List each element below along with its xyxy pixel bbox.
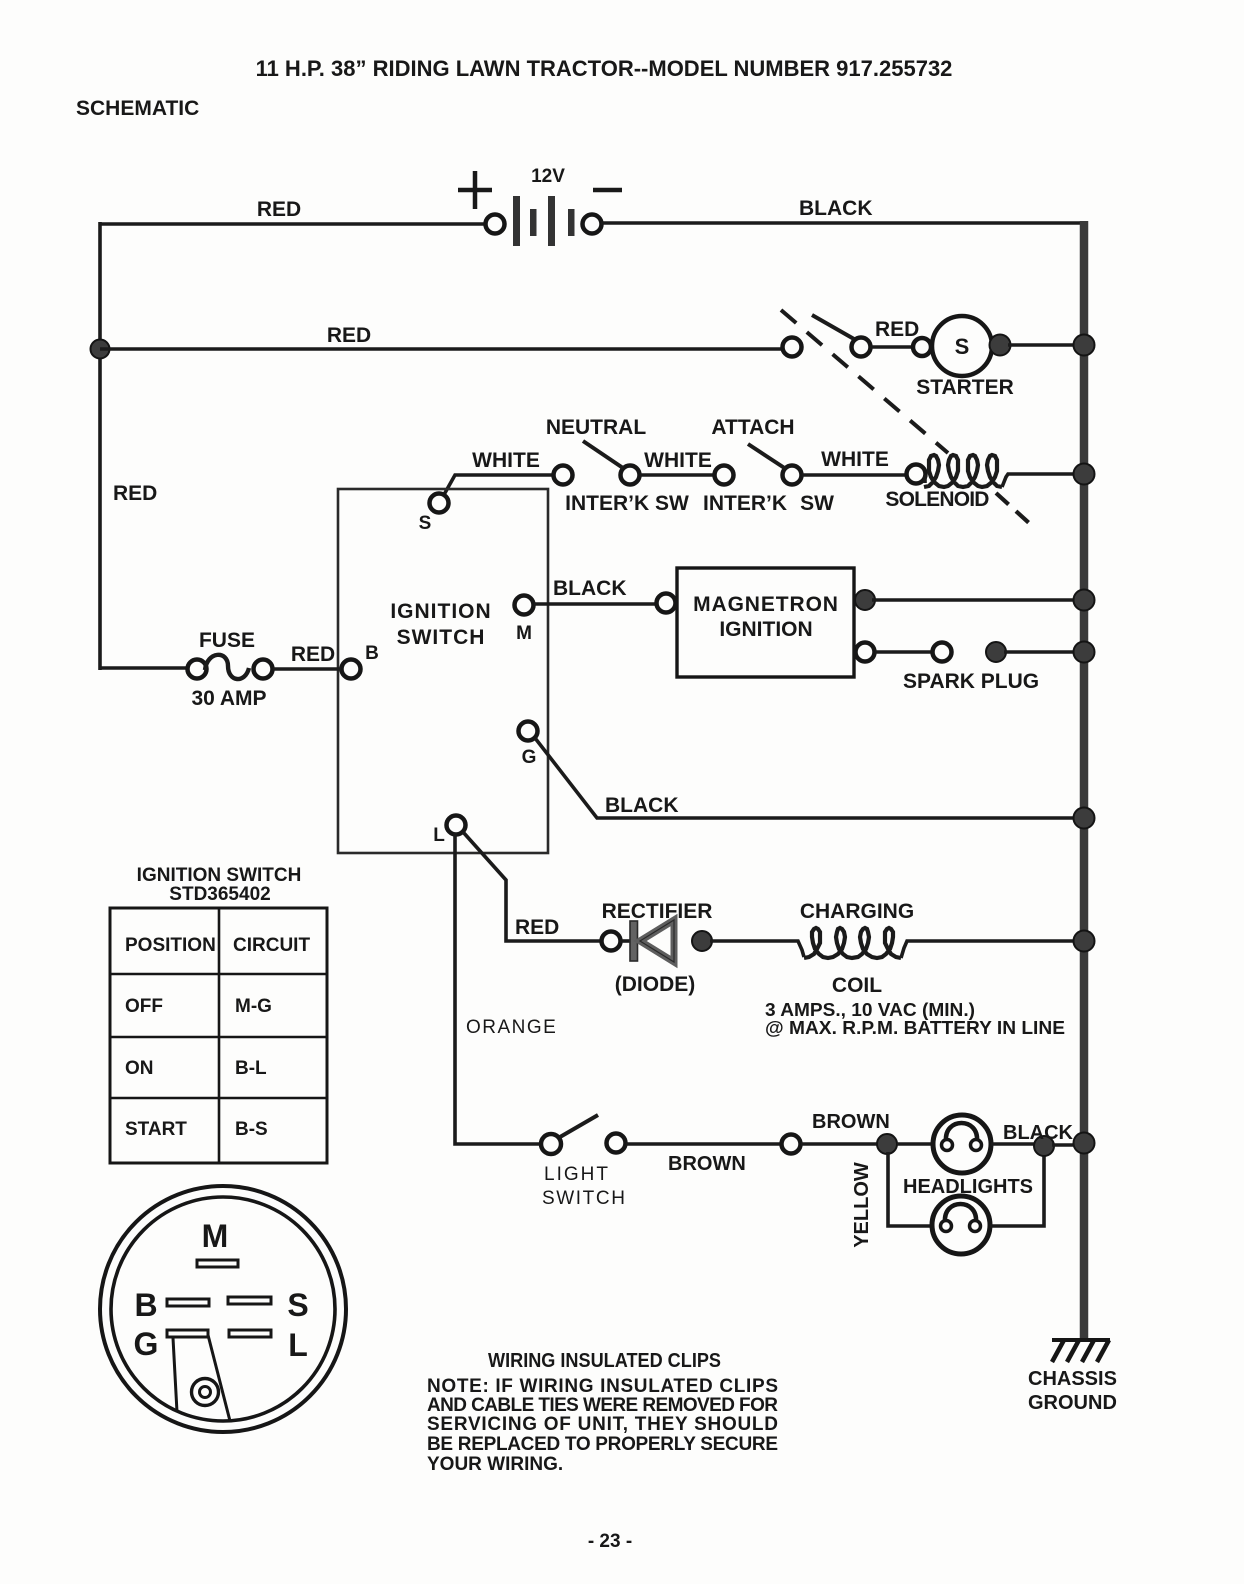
ignition switch connector view [100,1186,346,1432]
node: headlight output junction [1034,1136,1054,1156]
svg-text:G: G [134,1326,159,1362]
svg-text:NOTE: IF WIRING INSULATED CLIP: NOTE: IF WIRING INSULATED CLIPS [427,1376,778,1397]
chassis ground symbol [1052,1340,1110,1362]
svg-text:SERVICING OF UNIT, THEY SHOULD: SERVICING OF UNIT, THEY SHOULD [427,1414,778,1435]
svg-text:SPARK PLUG: SPARK PLUG [903,670,1039,693]
headlight feed terminal [782,1135,801,1154]
svg-text:B: B [134,1287,157,1323]
spark plug gap [856,642,1085,662]
label SPARK PLUG [903,670,1039,693]
label ATTACH [711,416,794,439]
starter switch contacts [783,315,871,357]
note heading WIRING INSULATED CLIPS [488,1350,721,1372]
headlight 2 [932,1152,1044,1254]
svg-text:SWITCH: SWITCH [397,626,486,649]
svg-text:IGNITION: IGNITION [390,600,491,623]
svg-text:INTER’K SW: INTER’K SW [565,492,689,515]
battery B1 12V [458,171,622,246]
svg-text:YELLOW: YELLOW [851,1162,873,1248]
label WHITE (right) [821,448,889,471]
label NEUTRAL [546,416,646,439]
svg-text:COIL: COIL [832,974,882,997]
svg-text:IGNITION: IGNITION [719,618,812,641]
label FUSE [199,629,255,652]
label STARTER [916,376,1014,399]
label BROWN (lower) [668,1153,746,1175]
svg-text:- 23 -: - 23 - [588,1531,632,1552]
label 30 AMP [191,687,266,710]
svg-text:YOUR WIRING.: YOUR WIRING. [427,1454,563,1475]
svg-text:LIGHT: LIGHT [544,1164,610,1185]
label BLACK (top) [799,197,873,220]
svg-text:(DIODE): (DIODE) [615,973,696,996]
ignition switch box [338,489,548,853]
svg-text:30 AMP: 30 AMP [191,687,266,710]
svg-text:GROUND: GROUND [1028,1392,1117,1414]
label INTER'K SW (attach) [703,492,834,515]
svg-text:SCHEMATIC: SCHEMATIC [76,97,199,120]
svg-text:RED: RED [515,916,559,939]
svg-text:CIRCUIT: CIRCUIT [233,935,310,956]
label RED (rectifier wire) [515,916,559,939]
label YELLOW (rotated) [851,1162,873,1248]
node: bus junction (solenoid) [1074,464,1095,485]
wire: to yellow junction [801,1142,878,1146]
connector pin L [229,1327,308,1363]
starter output node [990,335,1011,356]
wire: fuse to B terminal [273,667,341,671]
label COIL [832,974,882,997]
svg-text:RED: RED [291,643,335,666]
svg-text:STARTER: STARTER [916,376,1014,399]
light switch [541,1115,626,1154]
label IGNITION SWITCH (table title) [137,865,302,905]
svg-text:B-L: B-L [235,1058,267,1079]
svg-text:START: START [125,1119,187,1140]
neutral interlock switch [554,441,640,485]
svg-text:BLACK: BLACK [799,197,873,220]
magnetron output node [855,590,875,610]
page number [588,1531,632,1552]
svg-text:BLACK: BLACK [1003,1122,1074,1144]
node: bus junction (magnetron) [1074,590,1095,611]
wire: L terminal red wire to rectifier [463,832,601,941]
svg-text:@ MAX. R.P.M. BATTERY IN LINE: @ MAX. R.P.M. BATTERY IN LINE [765,1018,1065,1038]
connector key pointer [173,1335,230,1421]
svg-text:CHARGING: CHARGING [800,900,914,923]
magnetron input terminal [657,594,676,613]
node: bus junction (headlights) [1074,1133,1095,1154]
label RED (second row) [327,324,371,347]
starter motor S [932,316,992,376]
ignition switch G terminal [519,722,538,769]
svg-text:CHASSIS: CHASSIS [1028,1368,1117,1390]
svg-text:RED: RED [327,324,371,347]
label BLACK (magnetron wire) [553,577,627,600]
svg-text:M: M [516,623,532,644]
wire: battery positive red wire [100,222,486,226]
svg-text:MAGNETRON: MAGNETRON [693,593,839,616]
label WHITE (left) [472,449,540,472]
svg-text:WHITE: WHITE [821,448,889,471]
solenoid coil [907,455,1085,487]
connector pin M [197,1218,238,1267]
label INTER'K SW (neutral) [565,492,689,515]
attach interlock switch [715,444,802,485]
svg-text:SOLENOID: SOLENOID [885,488,989,511]
svg-text:B: B [365,643,379,664]
wire: between interlock switches [640,473,714,477]
svg-text:SW: SW [800,492,834,515]
label RED (starter) [875,318,919,341]
svg-text:BE REPLACED TO PROPERLY SECURE: BE REPLACED TO PROPERLY SECURE [427,1434,778,1455]
schematic heading [76,97,199,120]
wire: L terminal orange wire [455,833,541,1144]
svg-text:RED: RED [257,198,301,221]
label CHARGING [800,900,914,923]
ignition switch L terminal [433,816,465,847]
charging coil [710,928,1084,958]
node: bus junction (starter) [1074,335,1095,356]
label BLACK (headlights) [1003,1122,1074,1144]
svg-text:ATTACH: ATTACH [711,416,794,439]
svg-text:G: G [522,747,537,768]
label 12V [531,166,565,187]
svg-text:RED: RED [875,318,919,341]
wire: left vertical red bus [98,222,102,670]
ignition switch table [110,908,327,1163]
wire: switch to starter [870,345,914,349]
wire: to bus [1052,1143,1084,1147]
svg-text:11 H.P. 38” RIDING LAWN TRACTO: 11 H.P. 38” RIDING LAWN TRACTOR--MODEL N… [256,56,953,81]
headlight 1 [897,1115,1035,1173]
mechanical linkage dashed line [781,310,1029,523]
wire: battery negative black wire [601,221,1086,225]
wire: M to magnetron [534,602,656,606]
ignition switch B terminal [342,643,379,679]
svg-text:L: L [288,1327,308,1363]
fuse F1 30 amp [188,655,273,679]
title [256,56,953,81]
svg-text:NEUTRAL: NEUTRAL [546,416,646,439]
svg-text:STD365402: STD365402 [169,884,270,905]
svg-text:BROWN: BROWN [668,1153,746,1175]
svg-text:BLACK: BLACK [553,577,627,600]
svg-text:12V: 12V [531,166,565,187]
svg-text:AND CABLE TIES WERE REMOVED FO: AND CABLE TIES WERE REMOVED FOR [427,1395,778,1416]
starter terminal [913,338,931,356]
ignition switch M terminal [515,596,534,645]
label SOLENOID [885,488,989,511]
label IGNITION SWITCH (box) [390,600,491,649]
wire: G terminal black wire [535,738,1084,818]
svg-text:ON: ON [125,1058,154,1079]
svg-text:POSITION: POSITION [125,935,216,956]
label RED (top) [257,198,301,221]
svg-text:M-G: M-G [235,996,272,1017]
svg-text:B-S: B-S [235,1119,268,1140]
node: bus junction (G wire) [1074,808,1095,829]
wire: fuse feed [100,666,188,670]
svg-text:ORANGE: ORANGE [466,1017,557,1038]
label coil ratings [765,1000,1065,1038]
wire: attach interlock to solenoid [802,473,906,477]
label RED (fuse) [291,643,335,666]
svg-text:WIRING INSULATED CLIPS: WIRING INSULATED CLIPS [488,1350,721,1372]
svg-text:M: M [202,1218,229,1254]
svg-text:FUSE: FUSE [199,629,255,652]
label HEADLIGHTS [903,1176,1033,1198]
label LIGHT SWITCH [542,1164,627,1209]
svg-text:S: S [419,513,432,534]
svg-text:BROWN: BROWN [812,1111,890,1133]
svg-text:WHITE: WHITE [644,449,712,472]
note paragraph [427,1376,778,1475]
label RECTIFIER [602,900,713,923]
label (DIODE) [615,973,696,996]
magnetron ignition box [677,568,854,677]
svg-text:INTER’K: INTER’K [703,492,787,515]
svg-text:S: S [955,334,970,359]
svg-text:IGNITION SWITCH: IGNITION SWITCH [137,865,302,886]
wire: starter to ground bus [1008,343,1084,347]
label WHITE (middle) [644,449,712,472]
svg-text:3 AMPS., 10 VAC (MIN.): 3 AMPS., 10 VAC (MIN.) [765,1000,975,1020]
label BLACK (G wire) [605,794,679,817]
label RED (left vertical) [113,482,157,505]
node: bus junction (spark plug) [1074,642,1095,663]
svg-text:RECTIFIER: RECTIFIER [602,900,713,923]
wire: S terminal to neutral interlock [441,475,553,500]
svg-text:OFF: OFF [125,996,163,1017]
ignition switch S terminal [419,494,449,535]
svg-text:SWITCH: SWITCH [542,1188,627,1209]
connector pin G [134,1326,208,1362]
wire: light switch to headlight feed [626,1142,781,1146]
label ORANGE [466,1017,557,1038]
wire: magnetron to bus [872,598,1084,602]
svg-text:BLACK: BLACK [605,794,679,817]
svg-text:RED: RED [113,482,157,505]
svg-text:S: S [287,1287,308,1323]
svg-text:L: L [433,825,445,846]
connector pin B [134,1287,209,1323]
wire: yellow branch [888,1152,933,1226]
node: junction on left red wire [91,340,110,359]
chassis ground bus (right vertical) [1080,221,1089,1340]
label BROWN (upper) [812,1111,890,1133]
rectifier diode D1 [602,920,713,962]
node: bus junction (charging) [1074,931,1095,952]
svg-text:WHITE: WHITE [472,449,540,472]
label CHASSIS GROUND [1028,1368,1117,1414]
wire: red wire to starter switch [100,347,782,351]
node: yellow junction [877,1134,897,1154]
connector pin S [228,1287,309,1323]
